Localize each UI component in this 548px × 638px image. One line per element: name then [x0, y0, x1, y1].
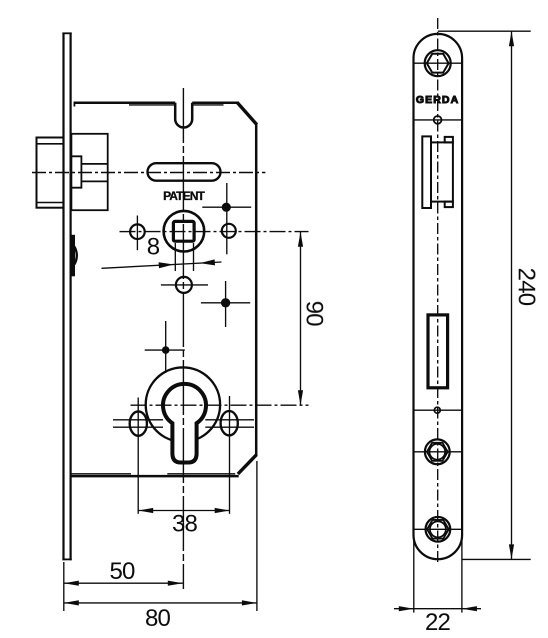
svg-text:22: 22 [425, 609, 451, 636]
left mounting oval [130, 411, 147, 435]
bottom right chamfer [238, 455, 257, 474]
circle below follower [176, 277, 192, 293]
dimension 38 (oval spacing) [138, 396, 230, 514]
faceplate outline [414, 34, 463, 559]
svg-text:80: 80 [145, 605, 171, 632]
small hole under logo [414, 119, 463, 121]
case right edge [255, 123, 258, 457]
top right chamfer [237, 102, 257, 124]
top screw hole centerline [414, 62, 463, 64]
small hole above middle screw [414, 409, 463, 411]
latch bolt head (protruding left of faceplate) [37, 138, 64, 208]
dimension 8 (follower square) [102, 243, 222, 271]
dot above cylinder [162, 346, 170, 354]
deadbolt edge bump on faceplate [71, 235, 77, 276]
euro profile cylinder hole outline [163, 384, 206, 463]
cylinder rosette circle [146, 367, 220, 441]
dimension 50 (backset) [64, 562, 183, 611]
svg-text:PATENT: PATENT [163, 189, 205, 203]
latch bolt guide box inside case [71, 134, 107, 210]
faceplate vertical centerline [437, 18, 439, 565]
faceplate edge view (left view) [62, 33, 71, 561]
dimension 22 (faceplate width) [394, 535, 481, 613]
horizontal latch centerline [32, 172, 265, 174]
follower circle [164, 211, 205, 252]
horizontal cylinder centerline / 90-dim bottom extension [131, 404, 309, 406]
oval slot above follower [148, 163, 221, 181]
svg-text:GERDA: GERDA [416, 94, 459, 106]
left small circle with cross [130, 224, 145, 239]
dimension 80 (case width) [64, 461, 257, 611]
dimension 240 (faceplate length) [438, 31, 531, 559]
euro profile cylinder hole (white fill under centerlines) [163, 384, 206, 463]
upper dot [222, 203, 231, 212]
right small circle [222, 224, 236, 238]
lower dot [221, 298, 230, 307]
case bottom edge [70, 475, 238, 478]
svg-text:50: 50 [109, 558, 135, 585]
svg-text:240: 240 [513, 268, 540, 306]
vertical main centerline [182, 88, 184, 589]
horizontal follower centerline / 90-dim top extension [120, 231, 309, 233]
spring clip notch at top [175, 103, 192, 128]
follower square spindle hole [173, 221, 194, 241]
lock case outline [70, 102, 256, 477]
svg-text:38: 38 [172, 511, 198, 538]
middle screw: circle + hex + inner circle [414, 451, 463, 453]
svg-text:90: 90 [301, 301, 328, 327]
deadbolt window [428, 315, 448, 388]
bottom screw: circle + hex + inner circle [414, 528, 463, 530]
top screw: circle + hex socket [425, 50, 451, 76]
svg-text:8: 8 [147, 233, 160, 260]
dimension 90 (follower to cylinder) [300, 232, 302, 406]
latch window with latch head [422, 136, 453, 208]
right mounting oval [221, 411, 238, 435]
